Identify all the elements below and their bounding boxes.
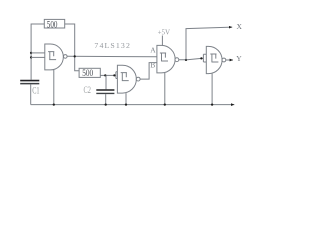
schmitt hysteresis glyph U1A — [48, 52, 56, 60]
capacitor C2 plates — [96, 90, 114, 93]
wire R2 right to gate2 input tie — [100, 74, 116, 76]
wire C2 tap down to plate — [105, 75, 107, 89]
node C2 tap — [104, 74, 106, 76]
gate2 input tie bar — [116, 72, 118, 79]
node gate1 output junction — [74, 55, 76, 57]
wire C2 bottom to rail — [105, 94, 107, 105]
wire R1 left to gate1 input node — [31, 24, 44, 80]
svg-text:500: 500 — [47, 19, 58, 29]
wire gate4 output to Y with arrow — [226, 59, 233, 61]
wire gate2 gnd pin — [125, 93, 127, 105]
schmitt hysteresis glyph U1C — [160, 53, 168, 61]
schmitt hysteresis glyph U1B — [121, 73, 129, 81]
node rail gate2 pin — [125, 103, 127, 105]
wire gate1 gnd pin — [53, 70, 55, 105]
NAND schmitt gate U1C body — [157, 45, 179, 73]
node rail C2 — [105, 103, 107, 105]
node before gate2 tie — [113, 74, 115, 76]
wire gate1 input stub lower — [31, 56, 45, 58]
svg-text:500: 500 — [82, 68, 93, 78]
ground rail wire with right arrow — [31, 104, 235, 106]
gate4 input tie bar — [203, 54, 206, 62]
node rail gate4 pin — [211, 103, 213, 105]
node gate3 output junction — [185, 59, 187, 61]
node gate1 input upper — [30, 52, 32, 54]
wire gate2 output up to gate3 input B — [140, 63, 157, 80]
wire gate1 output long run to gate3 input A — [67, 55, 157, 57]
wire C1 bottom to rail corner — [30, 84, 32, 104]
NAND schmitt gate U1A body — [45, 44, 67, 70]
resistor R2 (500 ohm) — [79, 68, 100, 77]
wire +5V to gate3 top — [161, 36, 163, 46]
svg-text:B: B — [150, 61, 155, 70]
resistor R1 (500 ohm) — [44, 19, 64, 28]
NAND schmitt gate U1D body — [206, 46, 226, 73]
capacitor C1 plates — [20, 81, 39, 84]
node rail gate1 pin — [53, 103, 55, 105]
svg-text:X: X — [237, 22, 243, 31]
svg-text:C2: C2 — [84, 85, 91, 95]
node gate1 input lower — [30, 56, 32, 58]
svg-text:+5V: +5V — [158, 29, 171, 37]
wire gate3 output to gate4 — [179, 58, 204, 60]
wire gate3 gnd pin — [164, 73, 166, 105]
svg-text:A: A — [150, 46, 156, 55]
wire R1 right down to gate1 output node and R2 left — [65, 24, 79, 71]
svg-text:74LS132: 74LS132 — [94, 41, 131, 50]
svg-text:C1: C1 — [32, 86, 39, 96]
NAND schmitt gate U1B body — [117, 65, 140, 93]
node rail gate3 pin — [164, 103, 166, 105]
node gate4 input tap — [200, 57, 202, 59]
schmitt hysteresis glyph U1D — [210, 54, 218, 62]
svg-text:Y: Y — [236, 54, 242, 63]
wire gate4 gnd pin — [211, 74, 213, 105]
wire gate1 input stub upper — [31, 52, 45, 54]
wire junction up and right to X with arrow — [186, 27, 232, 60]
